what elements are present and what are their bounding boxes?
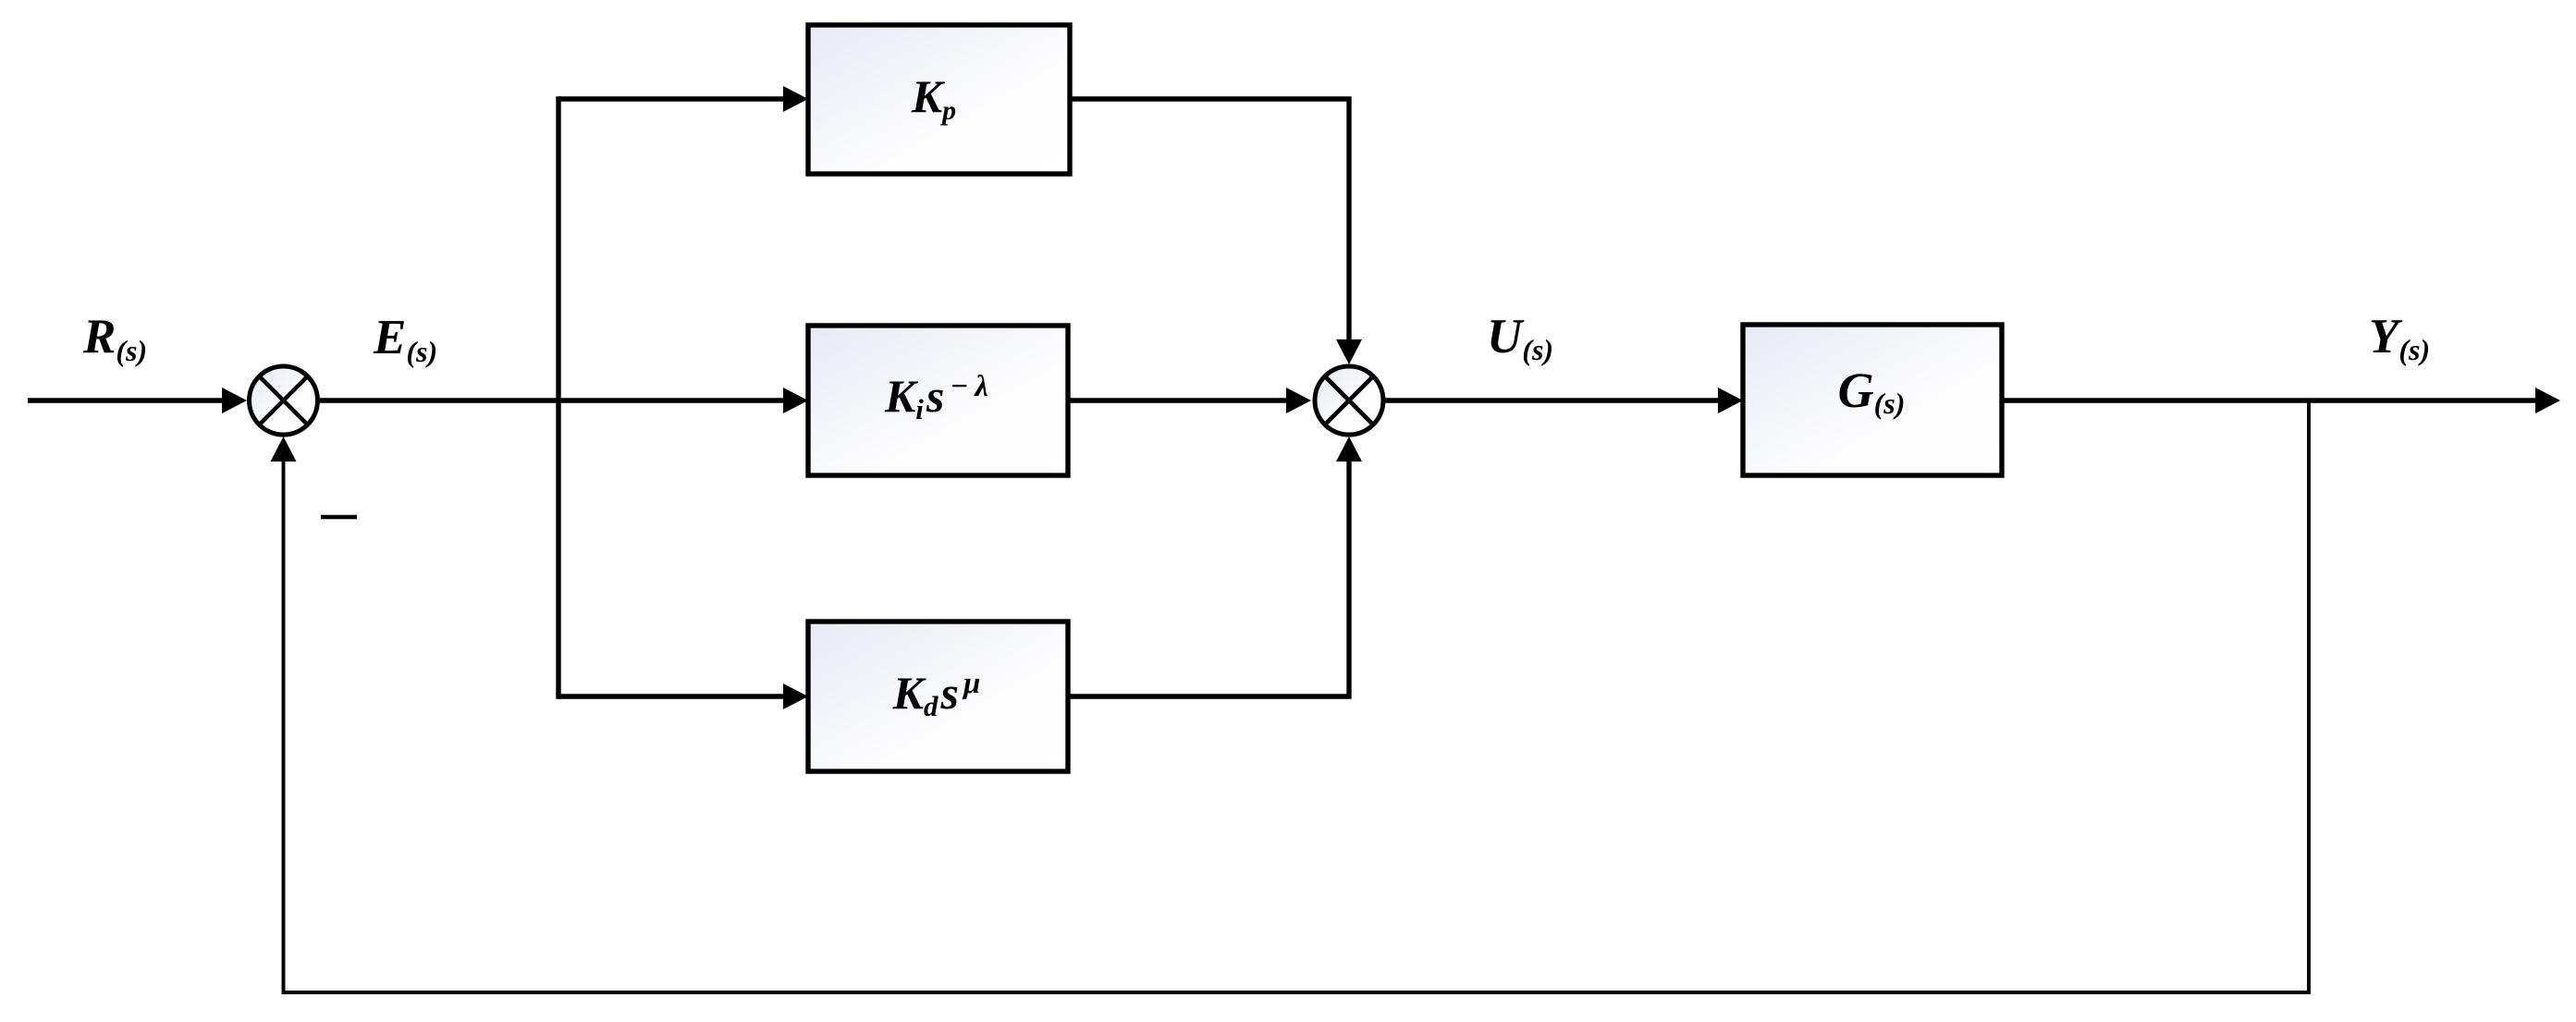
block G (1743, 325, 2002, 475)
wire E from sum1 to Ki input (320, 398, 788, 402)
wire bottom branch to Kd (558, 694, 788, 698)
wire branch vertical (556, 96, 560, 698)
wire U from sum2 to G (1383, 398, 1723, 402)
block Kp (808, 25, 1070, 174)
wire feedback right vertical (2307, 400, 2311, 992)
arrowhead into G (1718, 388, 1743, 413)
arrowhead into Kp (783, 86, 808, 112)
wire Kd output to sum2 bottom (1068, 456, 1349, 696)
minus sign (321, 515, 357, 520)
arrowhead into Kd (783, 683, 808, 709)
wire Kp output to sum2 top (1070, 99, 1349, 345)
block Ki (808, 326, 1068, 475)
wire feedback left vertical (282, 457, 286, 992)
summing junction sum2 (1315, 366, 1383, 435)
wire input R (28, 398, 227, 402)
block Kd (808, 622, 1068, 771)
arrowhead into Ki (783, 388, 808, 413)
arrowhead up into sum1 (271, 437, 297, 462)
wire top branch to Kp (558, 96, 788, 101)
wire Ki output to sum2 left (1068, 398, 1292, 402)
arrowhead down into sum2 (1336, 339, 1362, 364)
wire feedback bottom horizontal (282, 991, 2311, 994)
arrowhead into sum1 (222, 388, 247, 413)
arrowhead up into sum2 (1336, 437, 1362, 462)
wire output Y (2002, 398, 2541, 402)
summing junction sum1 (250, 366, 318, 435)
arrowhead into sum2 left (1286, 388, 1311, 413)
arrowhead output end (2535, 388, 2560, 413)
